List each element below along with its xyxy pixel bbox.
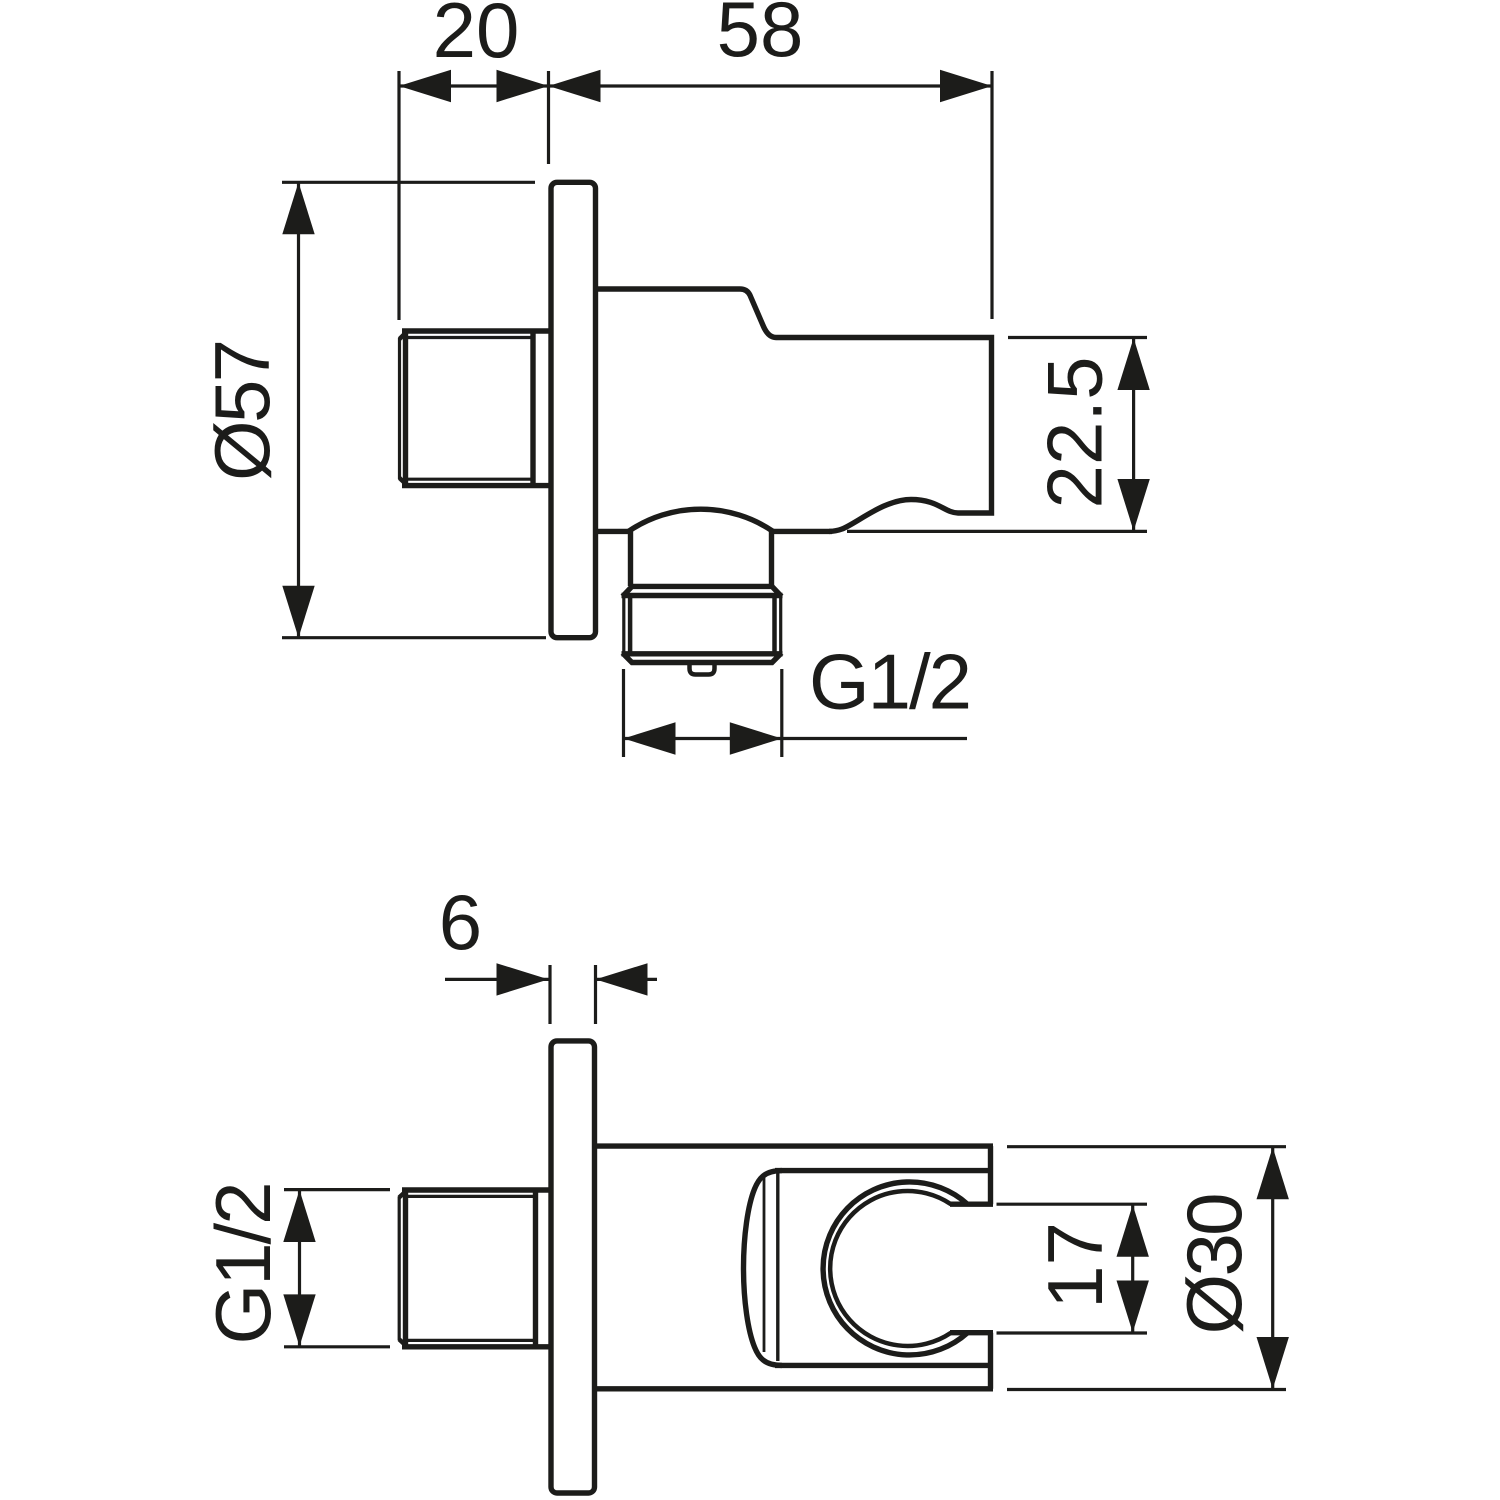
connector thread root line top (407, 1195, 536, 1198)
extension line y=637.7 (plate bottom, left) (282, 636, 546, 639)
arrow left tip at 595.5 (596, 963, 648, 995)
extension line y=1333 (17 bottom) (997, 1331, 1148, 1334)
outlet cylinder left edge (628, 531, 633, 586)
connector thread root line bottom (407, 478, 533, 481)
body right edge lower (988, 1333, 993, 1389)
arrow right tip at 548.5 (497, 70, 549, 102)
extension line x=550 (548, 965, 551, 1024)
connector thread end line (533, 1190, 538, 1347)
wall plate (side view) (551, 182, 596, 637)
extension line x=399 (397, 71, 400, 320)
arrow up tip at 1146.7 (1257, 1147, 1289, 1199)
connector thread root line bottom (407, 1339, 536, 1342)
svg-text:Ø57: Ø57 (198, 339, 286, 481)
arrow up tip at 1189.6 (283, 1190, 315, 1242)
svg-text:22.5: 22.5 (1031, 357, 1119, 509)
arrow down tip at 1346.8 (283, 1294, 315, 1346)
outlet cylinder right edge (769, 531, 774, 586)
connector thread root line top (407, 336, 533, 339)
arrow down tip at 531.4 (1117, 479, 1149, 531)
dim line 6 right segment (596, 978, 658, 981)
connector top edge (402, 328, 551, 333)
connector top edge (402, 1187, 551, 1192)
arrow left tip at 623.5 (624, 722, 676, 754)
arrow up tip at 182.3 (282, 182, 314, 234)
nut side thin left (622, 596, 625, 654)
connector bottom edge (402, 1344, 551, 1349)
extension line y=1346.8 left (284, 1345, 390, 1348)
body bottom edge left of outlet (595, 529, 631, 534)
holder dome tangent line (763, 1177, 766, 1352)
nut inner vertical right (772, 596, 777, 654)
extension line x=623.5 below nut (622, 669, 625, 757)
holder left bulge outline (744, 1171, 783, 1366)
connector thread end line (530, 331, 535, 486)
dim line 58 (549, 84, 993, 87)
extension line y=1204.2 (17 top) (997, 1203, 1148, 1206)
extension line y=1389.5 (D30 bottom) (1007, 1388, 1286, 1391)
body bottom edge between outlet and cradle wave (771, 529, 832, 534)
extension line y=337.5 right (1008, 336, 1147, 339)
nut side thin right (779, 596, 782, 654)
threaded connector (side view) (400, 331, 552, 486)
nut chamfer line bottom (622, 651, 783, 656)
arrow right tip at 548.5 (497, 963, 549, 995)
lip bottom (950, 1330, 993, 1335)
arrow right tip at 781.8 (730, 722, 782, 754)
dim line 17 vertical (1131, 1204, 1134, 1333)
nut top face with chamfers (623, 586, 782, 596)
extension line y=1146.7 (D30 top) (1007, 1145, 1286, 1148)
body outline (bottom view) top edge (595, 1143, 993, 1148)
body right edge upper (988, 1146, 993, 1204)
holder flat face line (776, 1173, 779, 1362)
connector chamfer top-left (400, 331, 408, 339)
body outline bottom edge (595, 1386, 993, 1391)
arrow down tip at 637.7 (282, 586, 314, 638)
outlet dome (629, 509, 774, 531)
connector left edge (403, 332, 408, 485)
svg-text:17: 17 (1031, 1222, 1119, 1309)
svg-text:G1/2: G1/2 (199, 1182, 287, 1345)
nut inner vertical left (628, 596, 633, 654)
dim line 22.5 vertical (1132, 338, 1135, 532)
connector chamfer bottom-left (400, 478, 408, 486)
svg-text:58: 58 (717, 0, 804, 73)
nut chamfer line top (622, 593, 783, 598)
svg-text:20: 20 (433, 0, 520, 74)
cradle inner arc (830, 1191, 951, 1346)
extension line y=182.3 (plate top, left) (282, 181, 535, 184)
extension line x=548.5 (547, 71, 550, 164)
dim line G1/2 vertical (298, 1190, 301, 1347)
extension line y=531.4 right (847, 530, 1147, 533)
arrow left tip at 399 (399, 70, 451, 102)
arrow down tip at 1389.5 (1257, 1337, 1289, 1389)
arrow down tip at 1333 (1117, 1281, 1149, 1333)
extension line x=992 (990, 71, 993, 319)
body outline (side view) (595, 289, 992, 531)
nut nub (690, 663, 715, 675)
cradle outer arc (823, 1182, 967, 1355)
extension line x=595.5 (594, 965, 597, 1024)
nut bottom face with chamfers (623, 653, 782, 663)
dim line 20 (399, 84, 549, 87)
arrow left tip at 548.5 (58 dim) (549, 70, 601, 102)
holder bottom edge (775, 1363, 993, 1368)
dim line G1/2 (624, 737, 968, 740)
svg-text:Ø30: Ø30 (1170, 1193, 1258, 1335)
connector left thin outer edge (398, 1196, 401, 1340)
dim line D57 vertical (297, 182, 300, 637)
connector left edge (403, 1191, 408, 1346)
arrow up tip at 1204.2 (1117, 1205, 1149, 1257)
extension line x=781.8 below nut (780, 669, 783, 757)
svg-text:6: 6 (439, 878, 482, 966)
dim line 6 left segment (445, 978, 549, 981)
threaded connector (bottom view) (399, 1190, 551, 1347)
holder top edge (775, 1168, 993, 1173)
dim line D30 vertical (1271, 1147, 1274, 1390)
svg-text:G1/2: G1/2 (809, 638, 972, 726)
connector left thin outer edge (398, 338, 401, 479)
extension line y=1189.6 left (284, 1188, 390, 1191)
wall plate (bottom view) (551, 1041, 595, 1493)
arrow up tip at 337.5 (1117, 338, 1149, 390)
connector chamfer bottom-left (399, 1339, 407, 1346)
connector bottom edge (402, 483, 551, 488)
arrow right tip at 992 (940, 70, 992, 102)
lip top (950, 1201, 993, 1206)
connector chamfer top-left (399, 1190, 407, 1197)
